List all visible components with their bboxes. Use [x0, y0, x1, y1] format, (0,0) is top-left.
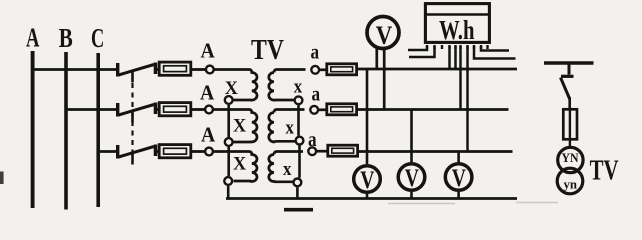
W.h voltage lead to line1 (second) [454, 46, 457, 69]
terminal X3 [224, 177, 232, 185]
bleed-through faint line a [388, 203, 455, 205]
bus B [64, 52, 68, 210]
wire line1 secondary [358, 68, 517, 71]
terminal a2 [310, 106, 318, 114]
bus C [96, 53, 100, 207]
x neutral bus (LV star point to earth) [297, 105, 299, 198]
secondary winding phase2 [269, 110, 305, 142]
W.h terminal pins [427, 45, 488, 49]
simplified diagram: bus stub [568, 65, 571, 75]
svg-text:V: V [405, 165, 419, 192]
terminal a1 [311, 66, 319, 74]
primary winding phase1 [215, 70, 258, 101]
terminal x1 [295, 96, 303, 104]
svg-text:a: a [311, 40, 320, 64]
W.h current lead stub left lower [409, 46, 435, 57]
terminal X2 [225, 138, 233, 146]
disconnect switch QS phase1 [118, 63, 159, 83]
secondary winding phase3 [269, 152, 303, 182]
svg-text:x: x [294, 77, 303, 98]
svg-text:X: X [233, 154, 246, 175]
scan smudge left edge [0, 172, 4, 185]
terminal A2 [205, 106, 213, 114]
wire line3 secondary [359, 150, 513, 153]
bus A [31, 51, 35, 208]
simplified diagram: fuse [563, 109, 577, 139]
svg-text:x: x [283, 159, 292, 180]
X neutral bus (HV star point) [227, 105, 230, 199]
wire a3 to fuse3 [317, 150, 327, 153]
simplified diagram: switch contact [561, 75, 574, 78]
terminal A1 [206, 66, 214, 74]
terminal A3 [205, 148, 213, 156]
svg-text:A: A [201, 123, 216, 147]
voltmeter PV1 [354, 166, 381, 193]
wire fuse2 to terminal A2 [192, 108, 205, 111]
voltmeter PV1 lead [366, 69, 369, 199]
simplified diagram: wire blade to fuse [568, 97, 571, 108]
simplified diagram: busbar [544, 61, 594, 64]
watt-hour meter W.h box [425, 4, 489, 43]
voltmeter PV2 lead [410, 110, 413, 199]
wire line2 primary (bus B to switch) [66, 108, 117, 111]
svg-text:YN: YN [562, 150, 580, 165]
wire a1 to fuse1 [320, 68, 326, 71]
svg-text:V: V [452, 165, 466, 192]
svg-text:x: x [286, 118, 295, 139]
svg-text:a: a [308, 127, 317, 151]
svg-text:C: C [91, 23, 104, 53]
svg-text:TV: TV [590, 156, 619, 187]
svg-text:V: V [360, 167, 374, 194]
primary winding phase2 [213, 110, 257, 143]
wire line2 secondary [358, 108, 509, 111]
wire line3 primary (bus C to switch) [98, 150, 116, 153]
svg-text:A: A [26, 23, 40, 53]
voltmeter PV3 lead [457, 152, 460, 199]
fuse fu1 secondary [327, 64, 357, 75]
W.h current lead stub right upper [481, 46, 509, 51]
svg-text:yn: yn [564, 177, 578, 192]
fuse fu3 secondary [328, 145, 358, 156]
svg-text:B: B [59, 23, 73, 53]
disconnect switch QS phase3 [118, 145, 159, 165]
wire fuse1 to terminal A1 [192, 68, 205, 71]
simplified diagram: TV primary circle [558, 147, 583, 172]
terminal a3 [308, 147, 316, 155]
svg-text:A: A [201, 39, 216, 63]
svg-text:X: X [233, 116, 246, 137]
wire fuse3 to terminal A3 [192, 150, 204, 153]
W.h voltage lead to line1 (first) [448, 46, 451, 69]
secondary winding phase1 [269, 70, 306, 101]
simplified diagram: switch blade [561, 78, 570, 100]
svg-text:X: X [225, 78, 238, 99]
fuse fu2 secondary [327, 104, 357, 115]
svg-text:A: A [200, 81, 215, 105]
voltmeter PV3 [445, 164, 472, 191]
svg-text:a: a [312, 82, 321, 106]
simplified diagram: wire through fuse [569, 108, 571, 147]
fuse FU1 primary [159, 62, 191, 75]
terminal X1 [225, 96, 233, 104]
W.h voltage lead to line2 [459, 46, 462, 110]
voltmeter PV2 [398, 164, 425, 191]
fuse FU2 primary [159, 103, 191, 116]
W.h voltage lead to line3 [466, 46, 469, 152]
bleed-through faint line b [516, 202, 558, 204]
svg-text:TV: TV [251, 34, 284, 66]
svg-text:V: V [376, 21, 393, 50]
switch linkage dashed line [131, 83, 133, 153]
W.h current lead stub left upper [408, 46, 427, 50]
wire a2 to fuse2 [319, 108, 326, 111]
terminal x3 [294, 179, 302, 187]
earth (ground) symbol [284, 208, 313, 212]
disconnect switch QS phase2 [118, 103, 159, 123]
terminal x2 [296, 137, 304, 145]
W.h current lead stub right lower [474, 46, 516, 59]
primary winding phase3 [214, 152, 258, 182]
svg-text:W.h: W.h [439, 15, 475, 45]
wire neutral bottom line [226, 197, 517, 200]
fuse FU3 primary [159, 145, 191, 158]
voltmeter PV0 (line voltage) [367, 17, 399, 49]
simplified diagram: TV secondary circle [557, 168, 583, 194]
wire line1 primary (bus A to switch) [33, 68, 117, 71]
voltmeter PV0 leads (line voltage) [377, 49, 384, 110]
